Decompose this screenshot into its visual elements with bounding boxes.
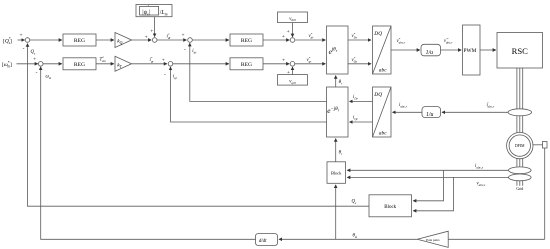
wire idr feedback from e-jth — [184, 43, 327, 101]
svg-text:vdr0: vdr0 — [289, 17, 296, 22]
wire kQ to sum B0 — [132, 34, 152, 40]
svg-text:1/u: 1/u — [426, 50, 434, 56]
stator current sensor — [509, 167, 532, 174]
wire B2 to REG2b — [173, 63, 229, 65]
svg-text:RSC: RSC — [512, 46, 529, 56]
node Qs* input label — [3, 37, 12, 45]
svg-text:ωm: ωm — [46, 75, 52, 80]
svg-text:+: + — [20, 32, 23, 38]
wire vdr0 to sum C — [287, 23, 293, 37]
block vqr0 — [278, 75, 308, 86]
wire iabcs branch to Block2 — [413, 170, 443, 201]
svg-text:iqr: iqr — [173, 75, 178, 80]
block PWM — [463, 25, 481, 75]
wire machine stator to grid 3-phase — [517, 159, 523, 186]
wire B to REG1b — [192, 39, 229, 41]
wire A1 to REG1 — [30, 39, 62, 41]
wire 1/u bottom to DQ2 — [393, 103, 423, 112]
summing junction B0 — [152, 38, 157, 43]
svg-text:+: + — [150, 29, 153, 35]
svg-text:DQ: DQ — [373, 92, 382, 98]
wire RSC to machine rotor 3-phase — [517, 68, 523, 133]
block DQ2 abc — [373, 87, 392, 137]
block flux/Lm — [136, 5, 172, 17]
wire Qs feedback Block2 to A1 — [28, 44, 370, 207]
block ejthr — [327, 26, 349, 74]
wire bottom thm from encoder — [448, 238, 545, 240]
svg-text:DQ: DQ — [373, 31, 382, 37]
svg-text:+: + — [145, 34, 148, 40]
block 1/u top — [421, 44, 441, 56]
svg-text:|ψs|: |ψs| — [142, 10, 150, 17]
summing junction C — [290, 38, 295, 43]
block Block1 angle — [327, 162, 346, 184]
wire B0 to sum B — [157, 33, 186, 40]
block vdr0 — [278, 12, 308, 23]
svg-text:-: - — [164, 72, 166, 78]
block REG2 — [63, 58, 96, 70]
svg-text:vqr0: vqr0 — [289, 79, 296, 84]
wire DQ2 to e-jthr iDr — [350, 95, 373, 101]
svg-text:+: + — [162, 57, 165, 63]
svg-text:Block: Block — [384, 205, 396, 210]
summing junction A1 — [20, 32, 30, 52]
wire iqr feedback from e-jth — [164, 67, 327, 122]
svg-text:PWM: PWM — [464, 48, 477, 54]
wire pole pairs to d/dt — [279, 234, 417, 240]
svg-text:-: - — [23, 46, 25, 52]
svg-text:-: - — [36, 70, 38, 76]
wire DQ1 to 1/u top — [391, 37, 420, 50]
svg-text:iQr: iQr — [353, 116, 359, 121]
summing junction B — [188, 38, 193, 43]
wire REG2 to kT — [96, 63, 114, 65]
wire ejthr to DQ1 d — [348, 32, 371, 40]
wire wm* to sum A2 — [17, 63, 38, 65]
wire REG1 to kQ — [96, 39, 114, 41]
svg-text:+: + — [287, 70, 290, 76]
svg-text:+: + — [282, 58, 285, 64]
wire C to ejth — [295, 32, 326, 40]
svg-text:d/dt: d/dt — [259, 239, 267, 244]
block REG2b — [230, 58, 263, 70]
summing junction C2 — [290, 62, 295, 67]
machine shaft — [533, 142, 547, 149]
rotor current sensor — [508, 109, 532, 116]
wire PWM to RSC — [480, 49, 496, 51]
svg-text:DFIM: DFIM — [515, 144, 525, 148]
svg-text:REG: REG — [241, 38, 252, 44]
svg-text:abc: abc — [379, 67, 387, 73]
wire kT to sum B2 — [132, 56, 167, 64]
wire A2 to REG2 — [43, 63, 62, 65]
wire vabcs branch to Block2 — [413, 177, 453, 210]
wire thm to Block1 — [335, 185, 337, 239]
wire vabcs sensor to Block1 — [347, 177, 509, 188]
svg-text:Qs: Qs — [352, 200, 357, 205]
svg-text:idr: idr — [192, 49, 197, 54]
svg-text:Block: Block — [331, 171, 342, 176]
wire rotor sensor to 1/u bottom — [442, 101, 509, 112]
wire wm feedback d/dt to A2 — [41, 67, 256, 239]
wire encoder shaft down — [544, 148, 546, 239]
svg-text:+: + — [287, 29, 290, 35]
svg-text:Grid: Grid — [516, 187, 523, 191]
wire 1/u to PWM — [441, 37, 462, 50]
wire REG1b to sum C — [263, 34, 289, 40]
wire Qs* to sum A1 — [18, 39, 25, 41]
block DQ1 abc — [373, 26, 392, 74]
svg-text:θm: θm — [353, 234, 358, 239]
wire DQ2 to e-jthr iQr — [350, 116, 373, 122]
wire flux/Lm to sum B0 — [150, 17, 154, 37]
block REG1 — [63, 34, 96, 46]
block d/dt — [256, 234, 278, 246]
wire C2 to ejth — [295, 56, 326, 64]
svg-text:iDr: iDr — [353, 95, 359, 100]
svg-text:[ω*m]: [ω*m] — [2, 61, 12, 69]
summing junction A2 — [33, 56, 43, 76]
svg-text:Pole pairs: Pole pairs — [426, 238, 440, 242]
block 1/u bottom — [422, 107, 441, 118]
block RSC — [497, 33, 543, 69]
svg-text:Qs: Qs — [31, 50, 36, 55]
svg-text:REG: REG — [74, 62, 85, 68]
svg-text:+: + — [282, 34, 285, 40]
stator voltage sensor — [509, 174, 532, 181]
wire REG2b to sum C2 — [263, 58, 289, 64]
svg-text:+: + — [33, 56, 36, 62]
gain kT — [115, 56, 132, 71]
block Block2 power — [369, 195, 412, 217]
wire thr from Block1 to e-jthr — [336, 139, 343, 162]
svg-text:abc: abc — [379, 130, 387, 136]
svg-text:-: - — [184, 47, 186, 53]
svg-text:1/u: 1/u — [426, 112, 434, 118]
gain kQ — [115, 33, 132, 48]
wire thr from e-jthr to ejthr — [336, 76, 343, 87]
svg-text:[Q*s]: [Q*s] — [3, 37, 12, 45]
gain pole pairs — [417, 231, 448, 247]
svg-text:REG: REG — [241, 62, 252, 68]
svg-text:/Lm: /Lm — [160, 10, 168, 17]
machine DFIM — [507, 132, 533, 158]
summing junction B2 — [168, 62, 173, 67]
svg-text:+: + — [182, 33, 185, 39]
wire vqr0 to sum C2 — [287, 67, 293, 76]
block e-jthr — [327, 87, 349, 137]
block REG1b — [230, 34, 263, 46]
wire ejthr to DQ1 q — [348, 56, 371, 64]
svg-text:REG: REG — [74, 38, 85, 44]
wire iabcs sensor to Block1 — [347, 164, 509, 170]
